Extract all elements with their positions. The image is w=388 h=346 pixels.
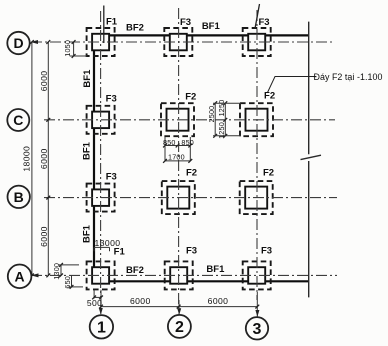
tick 1250 mid bbox=[223, 118, 227, 122]
dimension 1300 at A1 bbox=[60, 265, 62, 276]
tick bottom at 1 bbox=[99, 305, 103, 309]
dimension 1250/1250 at C3 bbox=[224, 103, 226, 136]
svg-text:F3: F3 bbox=[258, 17, 269, 28]
tick 2500 bottom bbox=[213, 134, 217, 138]
tick 2500 top bbox=[213, 101, 217, 105]
beam BF1 col 1 span B-A bbox=[93, 206, 95, 269]
dimension 500 below A1 bbox=[94, 296, 101, 298]
tick 6000 at B bbox=[46, 196, 50, 200]
footing F3 at A3 dashed outline bbox=[243, 261, 271, 289]
footing F3 at A3 column bbox=[248, 267, 265, 284]
svg-text:F3: F3 bbox=[106, 93, 117, 104]
boundary break slash bbox=[301, 155, 322, 159]
footing F2 at C3 dashed outline bbox=[240, 103, 273, 136]
grid line 1 (dash-dot column) bbox=[100, 11, 102, 297]
grid line 2 (dash-dot column) bbox=[178, 8, 180, 308]
tick 1250 top bbox=[223, 101, 227, 105]
svg-text:F3: F3 bbox=[180, 17, 191, 28]
leader line above footing D3 bbox=[255, 4, 260, 29]
tick 650 bottom bbox=[70, 285, 74, 289]
tick 850 mid bbox=[176, 144, 180, 148]
dimension 650 at A1 bbox=[71, 275, 73, 287]
beam BF1 row D span 2-3 bbox=[187, 34, 249, 36]
footing F2 at B3 column bbox=[245, 187, 267, 209]
tick 850 left bbox=[163, 144, 167, 148]
grid line 2 arrow bbox=[177, 308, 181, 315]
footing F3 at D2 dashed outline bbox=[164, 28, 192, 56]
grid line A arrow bbox=[31, 273, 39, 277]
svg-text:F2: F2 bbox=[264, 91, 275, 102]
footing F3 at D3 column bbox=[248, 34, 265, 51]
svg-text:F3: F3 bbox=[106, 172, 117, 183]
boundary break line right upper bbox=[308, 22, 310, 155]
footing F3 at B1 column bbox=[92, 189, 109, 206]
footing F3 at D3 dashed outline bbox=[243, 28, 271, 56]
svg-text:F2: F2 bbox=[263, 167, 274, 178]
beam row D right stub bbox=[265, 34, 309, 36]
grid line 1 extension to circle bbox=[100, 297, 102, 314]
svg-text:1700: 1700 bbox=[168, 152, 185, 161]
svg-text:1250: 1250 bbox=[217, 100, 226, 117]
tick 1050 top bbox=[72, 40, 76, 44]
grid bubble C bbox=[7, 109, 29, 131]
svg-text:D: D bbox=[13, 35, 23, 51]
extension C3 top bbox=[213, 102, 241, 104]
svg-text:1250: 1250 bbox=[217, 122, 226, 139]
svg-text:A: A bbox=[15, 268, 25, 284]
dimension 1700 at C2 bbox=[165, 160, 190, 162]
boundary break line right lower bbox=[308, 161, 310, 297]
extension 850 right bbox=[189, 137, 191, 161]
extension 500 left bbox=[93, 290, 95, 299]
tick 1250 bottom bbox=[223, 134, 227, 138]
svg-text:6000: 6000 bbox=[39, 226, 49, 247]
svg-text:1: 1 bbox=[97, 319, 106, 336]
grid bubble 3 bbox=[246, 317, 268, 339]
footing F3 at A2 column bbox=[170, 267, 187, 284]
dimension 850/850 at C2 bbox=[165, 145, 190, 147]
grid line C (dash-dot row) bbox=[44, 119, 335, 121]
footing F1 at D1 column bbox=[92, 34, 109, 51]
svg-text:BF1: BF1 bbox=[82, 69, 93, 88]
grid line B (dash-dot row) bbox=[44, 197, 337, 199]
svg-text:6000: 6000 bbox=[208, 296, 229, 306]
bottom dimension line bbox=[101, 306, 257, 308]
leader Day F2 horizontal bbox=[268, 77, 317, 93]
dimension 13000 at A1 bbox=[94, 246, 110, 248]
svg-text:650: 650 bbox=[63, 276, 72, 289]
tick bottom at 3 bbox=[255, 305, 259, 309]
footing F2 at C2 dashed outline bbox=[161, 103, 194, 136]
extension 1050 bottom bbox=[70, 55, 87, 57]
footing F3 at D2 column bbox=[170, 34, 187, 51]
svg-text:F2: F2 bbox=[186, 167, 197, 178]
svg-text:F1: F1 bbox=[106, 17, 118, 28]
extension C3 bottom bbox=[213, 135, 241, 137]
footing F2 at C2 column bbox=[167, 109, 189, 131]
svg-text:6000: 6000 bbox=[39, 71, 49, 92]
tick 850 right bbox=[188, 144, 192, 148]
svg-text:F1: F1 bbox=[114, 246, 126, 257]
grid line D arrow bbox=[31, 40, 39, 44]
tick 13000 right bbox=[109, 247, 111, 251]
footing F2 at B2 column bbox=[167, 187, 189, 209]
extension 850 left bbox=[164, 137, 166, 161]
dimension 1050 at D1 bbox=[73, 42, 75, 56]
svg-text:500: 500 bbox=[87, 298, 103, 308]
beam BF1 col 1 span C-B bbox=[93, 128, 95, 191]
footing F1 at D1 dashed outline bbox=[87, 28, 115, 56]
grid line 3 arrow bbox=[255, 310, 259, 317]
tick 500 left bbox=[92, 296, 96, 300]
footing F3 at C1 column bbox=[92, 112, 109, 129]
svg-text:850: 850 bbox=[163, 138, 176, 147]
grid bubble 2 bbox=[168, 315, 191, 338]
svg-text:B: B bbox=[14, 189, 24, 205]
svg-text:F2: F2 bbox=[185, 91, 196, 102]
svg-text:18000: 18000 bbox=[21, 146, 31, 172]
extension 1300 top bbox=[59, 264, 80, 266]
tick 1050 bottom bbox=[72, 54, 76, 58]
footing F2 at B2 dashed outline bbox=[162, 181, 195, 214]
svg-text:BF2: BF2 bbox=[126, 265, 144, 276]
grid bubble D bbox=[7, 32, 29, 54]
beam BF1 row A span 2-3 bbox=[187, 280, 249, 282]
svg-text:BF2: BF2 bbox=[126, 23, 144, 34]
grid bubble 1 bbox=[90, 315, 113, 338]
tick 500 right bbox=[99, 296, 103, 300]
svg-text:BF1: BF1 bbox=[206, 264, 225, 275]
dimension line 6000 (left inner) bbox=[47, 42, 49, 275]
svg-text:BF1: BF1 bbox=[81, 141, 92, 160]
tick 1300 bottom bbox=[59, 274, 63, 278]
svg-text:1300: 1300 bbox=[52, 263, 61, 280]
tick 6000 at A bbox=[46, 274, 50, 278]
svg-text:BF1: BF1 bbox=[202, 21, 221, 32]
svg-text:Đáy F2 tại -1.100: Đáy F2 tại -1.100 bbox=[314, 72, 383, 82]
svg-text:1050: 1050 bbox=[63, 40, 72, 57]
dimension line 18000 (left outer) bbox=[31, 42, 33, 275]
beam row A right stub bbox=[265, 280, 309, 282]
svg-text:2500: 2500 bbox=[207, 106, 216, 123]
footing F3 at B1 dashed outline bbox=[87, 184, 115, 212]
grid line 3 (dash-dot column) bbox=[256, 10, 258, 300]
grid line 3 extension to circle bbox=[256, 292, 258, 317]
svg-text:C: C bbox=[13, 112, 23, 128]
svg-text:6000: 6000 bbox=[130, 296, 151, 306]
tick 13000 left bbox=[93, 247, 95, 251]
tick 6000 at C bbox=[46, 118, 50, 122]
tick 18000 bottom bbox=[30, 274, 34, 278]
beam BF1 col 1 span D-C bbox=[93, 47, 95, 112]
svg-text:850: 850 bbox=[181, 138, 194, 147]
dimension 2500 at C3 bbox=[214, 103, 216, 136]
grid bubble B bbox=[8, 186, 30, 208]
footing F2 at B3 dashed outline bbox=[240, 181, 273, 214]
footing F1 at A1 column bbox=[92, 267, 109, 284]
grid line D (dash-dot row) bbox=[31, 41, 335, 43]
tick 1700 right bbox=[188, 159, 192, 163]
footing F2 at C3 column bbox=[246, 109, 268, 131]
beam BF2 row A span 1-2 bbox=[108, 280, 171, 282]
leader line above footing D1 bbox=[103, 6, 105, 44]
tick 1300 top bbox=[59, 263, 63, 267]
svg-text:2: 2 bbox=[175, 319, 184, 336]
footing F1 at A1 dashed outline bbox=[87, 261, 115, 289]
tick 1700 left bbox=[163, 159, 167, 163]
grid line 1 arrow bbox=[99, 308, 103, 315]
tick 18000 top bbox=[30, 40, 34, 44]
grid line 2 extension to circle bbox=[178, 300, 180, 315]
svg-text:BF1: BF1 bbox=[82, 224, 93, 243]
tick bottom at 2 bbox=[177, 305, 181, 309]
svg-text:F3: F3 bbox=[186, 245, 197, 256]
extension 650 bottom bbox=[69, 286, 84, 288]
svg-text:F3: F3 bbox=[261, 246, 272, 257]
grid bubble A bbox=[8, 265, 32, 289]
svg-text:6000: 6000 bbox=[39, 148, 49, 169]
footing F3 at A2 dashed outline bbox=[165, 261, 193, 289]
grid line A (dash-dot row) bbox=[31, 274, 337, 276]
tick 6000 at D bbox=[46, 40, 50, 44]
svg-text:3: 3 bbox=[253, 321, 262, 338]
footing F3 at C1 dashed outline bbox=[87, 106, 115, 134]
extension 500 right bbox=[100, 290, 102, 307]
beam BF2 row D span 1-2 bbox=[108, 34, 171, 36]
